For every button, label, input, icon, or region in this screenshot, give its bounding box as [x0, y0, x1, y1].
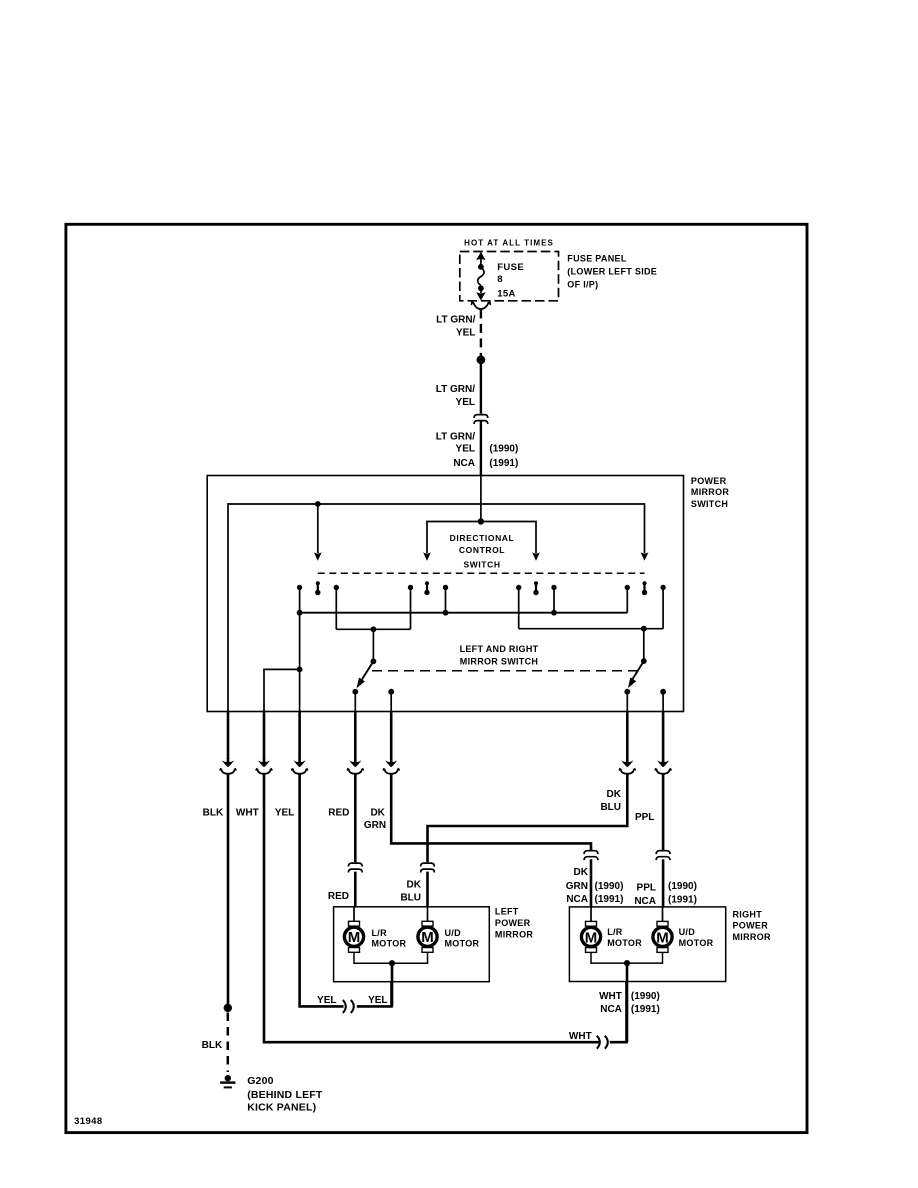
- svg-text:YEL: YEL: [317, 995, 336, 1006]
- svg-text:RED: RED: [328, 891, 349, 902]
- svg-text:LEFT: LEFT: [495, 907, 519, 917]
- svg-text:PPL: PPL: [637, 883, 656, 894]
- svg-text:SWITCH: SWITCH: [463, 560, 500, 570]
- svg-text:MIRROR SWITCH: MIRROR SWITCH: [460, 657, 538, 667]
- svg-text:CONTROL: CONTROL: [459, 545, 505, 555]
- svg-text:BLK: BLK: [203, 808, 224, 819]
- svg-text:KICK PANEL): KICK PANEL): [247, 1102, 316, 1114]
- svg-text:POWER: POWER: [495, 918, 531, 928]
- svg-text:NCA: NCA: [634, 896, 656, 907]
- svg-text:MIRROR: MIRROR: [691, 487, 729, 497]
- svg-text:L/R: L/R: [607, 927, 623, 937]
- svg-text:NCA: NCA: [453, 458, 475, 469]
- svg-text:(BEHIND LEFT: (BEHIND LEFT: [247, 1089, 323, 1101]
- svg-text:(1991): (1991): [631, 1004, 660, 1015]
- svg-text:YEL: YEL: [456, 397, 475, 408]
- svg-text:15A: 15A: [497, 289, 516, 300]
- svg-text:G200: G200: [247, 1075, 274, 1087]
- svg-text:FUSE PANEL: FUSE PANEL: [567, 253, 627, 263]
- svg-text:DK: DK: [370, 808, 385, 819]
- svg-text:SWITCH: SWITCH: [691, 499, 728, 509]
- svg-text:POWER: POWER: [691, 476, 727, 486]
- svg-text:WHT: WHT: [599, 991, 622, 1002]
- svg-text:(1990): (1990): [668, 881, 697, 892]
- svg-text:(1990): (1990): [595, 881, 624, 892]
- svg-text:MOTOR: MOTOR: [679, 938, 714, 948]
- svg-text:(1990): (1990): [489, 444, 518, 455]
- svg-text:L/R: L/R: [372, 928, 388, 938]
- svg-text:BLK: BLK: [202, 1040, 223, 1051]
- svg-text:MIRROR: MIRROR: [733, 932, 771, 942]
- svg-text:U/D: U/D: [445, 928, 462, 938]
- svg-text:8: 8: [497, 274, 503, 285]
- svg-text:LEFT AND RIGHT: LEFT AND RIGHT: [460, 644, 539, 654]
- svg-text:(1991): (1991): [489, 458, 518, 469]
- svg-text:(1991): (1991): [668, 895, 697, 906]
- svg-text:POWER: POWER: [733, 921, 769, 931]
- svg-text:PPL: PPL: [635, 812, 654, 823]
- svg-text:WHT: WHT: [569, 1031, 592, 1042]
- svg-text:DK: DK: [574, 867, 589, 878]
- svg-text:GRN: GRN: [364, 820, 386, 831]
- svg-text:(1990): (1990): [631, 991, 660, 1002]
- svg-text:U/D: U/D: [679, 927, 696, 937]
- svg-text:MOTOR: MOTOR: [607, 938, 642, 948]
- svg-text:GRN: GRN: [566, 881, 588, 892]
- svg-text:31948: 31948: [74, 1116, 102, 1127]
- svg-text:(LOWER LEFT SIDE: (LOWER LEFT SIDE: [567, 266, 657, 276]
- svg-text:NCA: NCA: [566, 894, 588, 905]
- svg-text:YEL: YEL: [275, 808, 294, 819]
- svg-text:OF I/P): OF I/P): [567, 279, 598, 289]
- svg-text:NCA: NCA: [600, 1004, 622, 1015]
- svg-text:LT GRN/: LT GRN/: [436, 315, 475, 326]
- svg-text:BLU: BLU: [400, 893, 421, 904]
- svg-text:LT GRN/: LT GRN/: [436, 431, 475, 442]
- svg-text:(1991): (1991): [595, 894, 624, 905]
- svg-text:DIRECTIONAL: DIRECTIONAL: [450, 533, 515, 543]
- svg-text:MOTOR: MOTOR: [372, 938, 407, 948]
- svg-text:YEL: YEL: [456, 444, 475, 455]
- svg-text:DK: DK: [607, 789, 622, 800]
- svg-text:MOTOR: MOTOR: [445, 938, 480, 948]
- svg-text:YEL: YEL: [456, 327, 475, 338]
- svg-text:HOT AT ALL TIMES: HOT AT ALL TIMES: [464, 239, 554, 248]
- svg-text:WHT: WHT: [236, 808, 259, 819]
- svg-text:BLU: BLU: [600, 802, 621, 813]
- svg-text:MIRROR: MIRROR: [495, 929, 533, 939]
- svg-text:RED: RED: [328, 808, 349, 819]
- svg-text:YEL: YEL: [368, 995, 387, 1006]
- svg-text:LT GRN/: LT GRN/: [436, 384, 475, 395]
- svg-text:DK: DK: [407, 880, 422, 891]
- svg-text:FUSE: FUSE: [497, 262, 524, 273]
- svg-text:RIGHT: RIGHT: [733, 909, 763, 919]
